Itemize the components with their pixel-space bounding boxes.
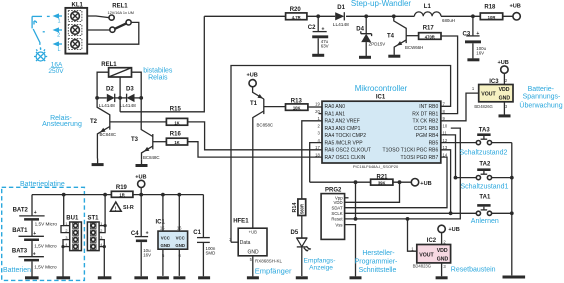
transistor T1 bbox=[247, 73, 286, 229]
svg-text:Batterien: Batterien bbox=[3, 267, 31, 274]
svg-text:T1OSI PGD RB7: T1OSI PGD RB7 bbox=[401, 155, 439, 161]
svg-text:Programmier-: Programmier- bbox=[355, 259, 398, 266]
svg-text:VDD: VDD bbox=[334, 200, 343, 205]
svg-text:T2: T2 bbox=[90, 119, 98, 125]
svg-text:Anzeige: Anzeige bbox=[309, 264, 333, 271]
ground C3 bbox=[467, 58, 479, 61]
capacitor C1 bbox=[193, 195, 216, 277]
pin 20 stub bbox=[319, 113, 323, 115]
node diode row right bbox=[139, 96, 143, 100]
svg-text:RA1 AN1: RA1 AN1 bbox=[325, 112, 346, 118]
resistor R13 bbox=[286, 99, 323, 111]
svg-text:BD4826G: BD4826G bbox=[474, 104, 492, 109]
svg-text:SI-R: SI-R bbox=[123, 205, 134, 211]
svg-text:SCLK: SCLK bbox=[331, 211, 342, 216]
svg-text:VDD: VDD bbox=[437, 248, 448, 254]
svg-text:2: 2 bbox=[57, 33, 60, 39]
node rail BU1 riser bbox=[62, 193, 66, 197]
svg-text:RA0 AN0: RA0 AN0 bbox=[325, 104, 346, 110]
node R21 right / VDD riser bbox=[398, 180, 402, 184]
+UB terminal R21 bbox=[411, 179, 431, 187]
contact lever bbox=[115, 23, 127, 28]
svg-text:Schnittstelle: Schnittstelle bbox=[359, 267, 397, 274]
svg-text:17: 17 bbox=[315, 145, 320, 150]
svg-text:IC1: IC1 bbox=[376, 95, 386, 101]
svg-text:RX DT RB1: RX DT RB1 bbox=[412, 112, 438, 118]
svg-text:R17: R17 bbox=[423, 26, 435, 32]
ground TA chain bbox=[503, 276, 526, 279]
svg-text:BAT2: BAT2 bbox=[13, 208, 29, 214]
ground IC3 bbox=[499, 114, 511, 117]
svg-text:19: 19 bbox=[315, 102, 320, 107]
wire RB4 to TA2 bbox=[441, 135, 456, 178]
svg-text:SMD: SMD bbox=[206, 250, 216, 255]
ground T2 bbox=[92, 163, 104, 166]
svg-text:HFE1: HFE1 bbox=[233, 218, 249, 224]
zener D4 bbox=[356, 16, 385, 56]
node rail ST1 riser bbox=[103, 193, 107, 197]
svg-text:Resetbaustein: Resetbaustein bbox=[451, 266, 496, 273]
svg-text:TA2: TA2 bbox=[479, 162, 491, 168]
battery BAT2 bbox=[13, 195, 58, 237]
SDAT wire to RB7 bbox=[345, 157, 447, 208]
transistor T2 bbox=[90, 98, 166, 159]
svg-text:RA7 OSC1 CLKIN: RA7 OSC1 CLKIN bbox=[325, 155, 366, 161]
svg-text:R19: R19 bbox=[116, 185, 128, 191]
svg-text:D3: D3 bbox=[126, 87, 134, 93]
ground T3 bbox=[136, 164, 148, 167]
svg-text:PRG2: PRG2 bbox=[325, 188, 342, 194]
svg-text:D2: D2 bbox=[106, 87, 114, 93]
connector ST1 bbox=[87, 195, 106, 277]
svg-text:1R: 1R bbox=[119, 193, 124, 198]
button TA1 bbox=[476, 194, 513, 215]
resistor R16 bbox=[166, 131, 322, 157]
connector BU1 bbox=[61, 216, 81, 277]
arrow 2 bbox=[53, 27, 63, 38]
resistor R19 bbox=[111, 185, 132, 197]
ground ST1 bbox=[98, 276, 112, 279]
ground D5 bbox=[296, 276, 308, 279]
svg-text:680uH: 680uH bbox=[442, 18, 455, 23]
ground PRG2 Vss bbox=[350, 276, 362, 279]
svg-text:Empfänger: Empfänger bbox=[255, 266, 292, 275]
svg-text:Reset: Reset bbox=[331, 217, 343, 222]
capacitor C2 bbox=[308, 16, 329, 54]
SCLK wire to RB6 and TA1 bbox=[345, 212, 512, 214]
svg-text:VCC: VCC bbox=[176, 236, 185, 241]
battery BAT3 bbox=[12, 249, 57, 277]
svg-text:Hersteller-: Hersteller- bbox=[362, 250, 395, 257]
svg-text:GND: GND bbox=[437, 256, 449, 262]
resistor R21 bbox=[310, 174, 412, 185]
arrow L bbox=[53, 41, 63, 52]
inductor L1 bbox=[414, 4, 455, 23]
coil left wire bbox=[97, 72, 109, 98]
ground IC2 bbox=[436, 276, 448, 279]
svg-text:GND: GND bbox=[175, 243, 185, 248]
svg-text:T1OSO T1CKI PGC RB6: T1OSO T1CKI PGC RB6 bbox=[383, 148, 439, 154]
Vss wire to ground bbox=[345, 225, 356, 277]
svg-text:1: 1 bbox=[65, 222, 67, 226]
svg-text:VOUT: VOUT bbox=[481, 92, 496, 98]
svg-text:Data: Data bbox=[240, 240, 251, 246]
coil right wire bbox=[132, 72, 142, 98]
svg-text:R16: R16 bbox=[170, 131, 182, 137]
switch symbol bbox=[32, 15, 42, 17]
battery BAT1 bbox=[12, 228, 57, 257]
svg-text:CCP1 RB3: CCP1 RB3 bbox=[414, 126, 439, 132]
ground IC1 pin5 bbox=[157, 276, 169, 279]
ground battery column bbox=[25, 276, 39, 279]
svg-text:Ansteuerung: Ansteuerung bbox=[42, 121, 82, 128]
svg-text:4.7R: 4.7R bbox=[292, 15, 301, 20]
battery monitor IC3 bbox=[441, 60, 513, 121]
svg-text:TX CK RB2: TX CK RB2 bbox=[412, 119, 438, 125]
LED D5 bbox=[291, 230, 312, 276]
svg-text:Schaltzustand2: Schaltzustand2 bbox=[460, 149, 508, 156]
svg-text:Anlernen: Anlernen bbox=[471, 218, 499, 225]
wire centre tap to R20 bbox=[120, 16, 204, 112]
svg-text:L1: L1 bbox=[424, 4, 432, 10]
svg-text:Spannungs-: Spannungs- bbox=[523, 94, 561, 101]
coil centre tap bbox=[119, 77, 121, 112]
svg-text:RA2 AN2 VREF: RA2 AN2 VREF bbox=[325, 119, 360, 125]
svg-text:LL4148: LL4148 bbox=[333, 22, 349, 28]
svg-text:VOUT: VOUT bbox=[419, 252, 434, 258]
svg-text:IC2: IC2 bbox=[427, 238, 437, 244]
svg-text:L: L bbox=[58, 47, 61, 53]
svg-text:10K: 10K bbox=[293, 106, 301, 111]
svg-text:RA6 OSC2 CLKOUT: RA6 OSC2 CLKOUT bbox=[325, 148, 371, 154]
wire KL1-1 to contact bbox=[87, 16, 109, 18]
svg-text:16V: 16V bbox=[476, 50, 484, 55]
svg-text:GND: GND bbox=[161, 243, 171, 248]
svg-text:RB5: RB5 bbox=[429, 141, 439, 147]
Reset wire to RB3 bbox=[345, 128, 461, 219]
svg-text:BU1: BU1 bbox=[66, 216, 79, 222]
svg-text:+UB: +UB bbox=[448, 227, 459, 233]
svg-text:RA5 /MCLR VPP: RA5 /MCLR VPP bbox=[325, 141, 364, 147]
svg-text:TA1: TA1 bbox=[479, 194, 491, 200]
battery supply rail bbox=[32, 194, 203, 196]
svg-text:39K: 39K bbox=[378, 180, 386, 185]
svg-text:R18: R18 bbox=[484, 4, 496, 10]
svg-text:1: 1 bbox=[58, 19, 61, 25]
ground C2 bbox=[312, 54, 324, 57]
svg-text:INT RB0: INT RB0 bbox=[419, 104, 438, 110]
svg-text:250V: 250V bbox=[48, 68, 64, 75]
ground D4 bbox=[359, 56, 371, 59]
ground BU1 bbox=[57, 276, 71, 279]
resistor R15 bbox=[166, 106, 322, 149]
ground IC1 pin6 bbox=[173, 276, 185, 279]
node diode row left bbox=[95, 96, 99, 100]
resistor R20 bbox=[286, 7, 307, 20]
relay REL1 coil (bistable) bbox=[97, 62, 141, 112]
svg-text:560R: 560R bbox=[299, 204, 304, 214]
svg-text:PGM RB4: PGM RB4 bbox=[416, 133, 439, 139]
svg-text:C1: C1 bbox=[193, 230, 201, 236]
svg-text:RA4 TOCKI CMP2: RA4 TOCKI CMP2 bbox=[325, 133, 367, 139]
svg-text:SDAT: SDAT bbox=[331, 205, 343, 210]
svg-text:C2: C2 bbox=[308, 25, 316, 31]
svg-text:R20: R20 bbox=[290, 7, 302, 13]
svg-text:REL1: REL1 bbox=[112, 4, 128, 10]
svg-text:PIC16LF648A-I_SSOP20: PIC16LF648A-I_SSOP20 bbox=[353, 164, 399, 169]
svg-text:ST1: ST1 bbox=[88, 216, 100, 222]
staple pins 3-4 and ground drop bbox=[99, 240, 104, 247]
VDD wire bbox=[345, 182, 400, 202]
svg-text:LL4148: LL4148 bbox=[120, 103, 136, 109]
lamp bbox=[36, 52, 45, 61]
battery board dashed outline bbox=[2, 187, 85, 280]
node rail VCC16 bbox=[177, 193, 181, 197]
node T4 collector bbox=[392, 14, 396, 18]
svg-text:+UB: +UB bbox=[420, 181, 431, 187]
svg-text:T3: T3 bbox=[131, 137, 139, 143]
svg-text:+UB: +UB bbox=[498, 60, 509, 66]
svg-text:470R: 470R bbox=[425, 35, 435, 40]
wire pole to KL1-L bbox=[87, 22, 139, 44]
svg-text:+UB: +UB bbox=[247, 73, 258, 79]
svg-text:BC858C: BC858C bbox=[257, 123, 274, 128]
svg-text:BC848C: BC848C bbox=[100, 132, 117, 137]
svg-text:1K: 1K bbox=[174, 120, 179, 125]
svg-text:TA3: TA3 bbox=[479, 128, 491, 134]
svg-text:16V: 16V bbox=[143, 252, 151, 257]
svg-text:LL4148: LL4148 bbox=[99, 103, 115, 109]
microcontroller IC1 bbox=[315, 95, 448, 170]
svg-text:1K: 1K bbox=[174, 140, 179, 145]
svg-text:+UB: +UB bbox=[249, 229, 257, 234]
button TA3 bbox=[441, 128, 512, 145]
diode D3 bbox=[120, 87, 141, 109]
svg-text:Schaltzustand1: Schaltzustand1 bbox=[461, 184, 509, 191]
ground C1 bbox=[198, 276, 210, 279]
node diode row centre bbox=[118, 96, 122, 100]
svg-text:BD4823G: BD4823G bbox=[413, 264, 431, 269]
capacitor C3 bbox=[463, 16, 487, 58]
wire KL1-2 to contact bbox=[87, 29, 110, 31]
svg-text:BCW66H: BCW66H bbox=[405, 45, 423, 50]
svg-text:1,5V Micro: 1,5V Micro bbox=[34, 264, 57, 269]
svg-text:GND: GND bbox=[499, 95, 511, 101]
IC1 supply block bbox=[156, 195, 188, 276]
svg-text:63V: 63V bbox=[321, 44, 329, 49]
svg-text:T1: T1 bbox=[250, 101, 258, 107]
svg-text:Batterieplatine: Batterieplatine bbox=[20, 181, 65, 188]
programming header PRG2 bbox=[321, 128, 512, 276]
staple pins 3-4 and ground drop bbox=[63, 240, 70, 247]
wire TA chain to ground bbox=[511, 143, 513, 276]
node L1/C3 bbox=[471, 14, 475, 18]
svg-text:12V/16A 1x UM: 12V/16A 1x UM bbox=[108, 11, 134, 15]
svg-text:VDD: VDD bbox=[499, 87, 510, 93]
+UB terminal (battery rail) bbox=[135, 174, 146, 194]
receiver module HFE1 bbox=[229, 218, 282, 276]
svg-text:T4: T4 bbox=[387, 34, 395, 40]
svg-text:D5: D5 bbox=[291, 230, 299, 236]
wire RA2 to R14 bbox=[302, 121, 322, 199]
svg-text:+: + bbox=[34, 210, 37, 216]
terminal block KL1 bbox=[65, 2, 87, 53]
svg-text:1,5V Micro: 1,5V Micro bbox=[34, 243, 57, 248]
svg-text:18: 18 bbox=[315, 152, 320, 157]
svg-text:1,5V Micro: 1,5V Micro bbox=[35, 221, 58, 226]
svg-text:R15: R15 bbox=[170, 106, 182, 112]
+UB terminal step-up output bbox=[510, 3, 521, 20]
node rail C4 / +UB drop bbox=[139, 193, 143, 197]
warning triangle SI-R bbox=[110, 202, 133, 212]
svg-text:10: 10 bbox=[443, 123, 448, 128]
wire RA5 to R21 row bbox=[310, 143, 322, 183]
svg-text:+UB: +UB bbox=[135, 174, 146, 180]
wire data line HFE1 to RB0 bbox=[231, 66, 451, 243]
resistor R18 bbox=[480, 4, 502, 19]
svg-text:Mikrocontroller: Mikrocontroller bbox=[355, 84, 408, 93]
node D1/D4 bbox=[364, 14, 368, 18]
button TA2 bbox=[454, 162, 514, 180]
svg-text:BAT1: BAT1 bbox=[12, 228, 28, 234]
svg-text:Batterie-: Batterie- bbox=[528, 86, 555, 93]
svg-text:D1: D1 bbox=[337, 5, 345, 11]
svg-text:VCC: VCC bbox=[161, 236, 170, 241]
arrow 1 bbox=[53, 13, 63, 24]
resistor R14 bbox=[292, 199, 306, 238]
svg-text:BC848C: BC848C bbox=[143, 155, 160, 160]
svg-text:+: + bbox=[146, 231, 149, 237]
ground HFE1 bbox=[247, 276, 259, 279]
staple pins 1-2 and rail riser bbox=[99, 226, 105, 233]
svg-text:Vss: Vss bbox=[335, 222, 342, 227]
svg-text:10R: 10R bbox=[488, 15, 496, 20]
svg-text:Überwachung: Überwachung bbox=[519, 102, 562, 110]
node R21 left / reset riser bbox=[354, 180, 358, 184]
relay REL1 contacts bbox=[87, 4, 139, 45]
lamp / switch external circuit (blue) bbox=[32, 16, 50, 61]
reset IC2 bbox=[408, 219, 460, 276]
svg-text:RX868SH-KL: RX868SH-KL bbox=[255, 258, 283, 263]
resistor R17 bbox=[419, 26, 458, 114]
node R20/C2 bbox=[316, 14, 320, 18]
svg-text:GND: GND bbox=[248, 250, 260, 256]
svg-text:bistabiles: bistabiles bbox=[143, 68, 173, 75]
diode D1 bbox=[333, 5, 349, 28]
capacitor C4 bbox=[131, 195, 151, 277]
ground T4 bbox=[388, 55, 400, 58]
svg-text:BAT3: BAT3 bbox=[12, 249, 28, 255]
diode D2 bbox=[97, 87, 120, 109]
ground C4 bbox=[134, 276, 148, 279]
svg-text:+UB: +UB bbox=[510, 3, 521, 9]
transistor T4 bbox=[387, 16, 423, 55]
node rail VCC15 bbox=[161, 193, 165, 197]
svg-text:ZPD15V: ZPD15V bbox=[369, 41, 386, 46]
wire rail to BU1 pin1 bbox=[64, 195, 70, 226]
svg-text:Step-up-Wandler: Step-up-Wandler bbox=[351, 0, 412, 8]
svg-text:Relais: Relais bbox=[148, 75, 168, 82]
Vpp stub bbox=[345, 197, 349, 199]
svg-text:RA3 AN3 CMP1: RA3 AN3 CMP1 bbox=[325, 126, 361, 132]
staple pins 1-2 bbox=[61, 226, 70, 233]
top supply wire bbox=[204, 15, 513, 17]
contact circles bbox=[109, 15, 114, 20]
transistor T3 bbox=[131, 98, 166, 160]
